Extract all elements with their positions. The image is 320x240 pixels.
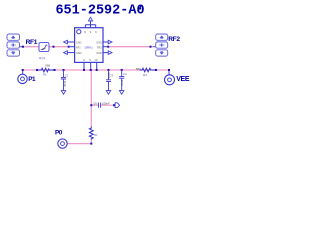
junction port RF1 — [22, 46, 24, 48]
resistor R2 — [89, 127, 93, 140]
power symbol VEE — [165, 75, 175, 85]
junction P0 corner — [90, 143, 92, 145]
svg-text:P0: P0 — [55, 130, 63, 137]
junction VEE corner — [168, 69, 170, 71]
svg-text:R3: R3 — [143, 73, 147, 77]
junction C6 branch — [90, 104, 92, 106]
resistor R1 — [38, 68, 53, 72]
U1 right pin stub RF2 — [103, 46, 108, 48]
power arrow up — [88, 17, 92, 21]
U1 left pin stub GND2 (nc) — [67, 52, 74, 54]
svg-text:GND: GND — [96, 41, 102, 44]
svg-text:P1: P1 — [28, 76, 36, 83]
nc arrow left bottom — [64, 51, 68, 55]
nc arrow right bottom — [108, 51, 112, 55]
svg-text:10: 10 — [94, 58, 97, 62]
wire C6 branch — [91, 104, 114, 106]
junction R1 left — [36, 69, 38, 71]
IC U1 pin1 circle — [77, 30, 81, 34]
IC U1 body — [75, 28, 103, 63]
svg-text:C3: C3 — [110, 73, 114, 77]
svg-text:10nF: 10nF — [120, 80, 124, 87]
junction port RF2 — [150, 46, 152, 48]
capacitor C6 — [98, 103, 100, 108]
svg-text:RF2: RF2 — [168, 36, 180, 43]
junction C2 — [63, 69, 65, 71]
junction U1 pin RF2 — [107, 46, 109, 48]
junction R1 right — [54, 69, 56, 71]
hierarchical port RF1 box bottom — [7, 50, 20, 56]
U1 right pin stub GND2 (nc) — [103, 52, 108, 54]
svg-text:DRA1: DRA1 — [85, 46, 94, 50]
junction U1 pin RF1 — [68, 46, 70, 48]
svg-text:GND: GND — [76, 41, 82, 44]
capacitor C4 — [119, 70, 124, 90]
junction U1 gnd pin 1 — [83, 69, 85, 71]
svg-text:RF1: RF1 — [26, 39, 38, 46]
U1 left pin stub GND (nc) — [67, 41, 74, 43]
svg-text:C4: C4 — [123, 72, 127, 76]
capacitor C3 — [106, 70, 111, 90]
wire VEE drop — [168, 70, 170, 75]
power symbol P0 — [58, 139, 67, 148]
U1 bottom pin stub 1 — [83, 62, 85, 70]
svg-text:RF1: RF1 — [76, 47, 81, 50]
svg-text:560: 560 — [45, 64, 50, 68]
svg-text:50: 50 — [94, 133, 98, 137]
junction EQ1 right — [53, 46, 55, 48]
hierarchical port RF1 box middle — [7, 42, 20, 48]
junction P1 corner — [22, 69, 24, 71]
wire P0 vertical lower — [67, 140, 91, 144]
svg-text:10nF: 10nF — [63, 81, 67, 88]
VCC power bar above U1 — [85, 21, 95, 28]
wire P0 vertical upper — [90, 70, 92, 127]
svg-text:RF2: RF2 — [97, 47, 102, 50]
U1 bottom pin stub 2 — [90, 62, 92, 70]
U1 bottom pin stub 3 — [96, 62, 98, 70]
junction offpage — [113, 104, 115, 106]
svg-text:EQ1: EQ1 — [39, 56, 45, 60]
hierarchical port RF2 box middle — [156, 42, 168, 48]
svg-text:GND: GND — [96, 52, 102, 55]
junction C3 — [108, 69, 110, 71]
ground arrow C4 — [120, 91, 124, 95]
power symbol P1 — [18, 74, 27, 83]
junction U1 gnd pin 2 — [90, 69, 92, 71]
junction C4 — [121, 69, 123, 71]
capacitor C2 — [61, 70, 66, 90]
svg-text:651-2592-A0: 651-2592-A0 — [55, 3, 144, 18]
svg-text:100nF: 100nF — [102, 101, 110, 105]
svg-text:GND: GND — [76, 52, 82, 55]
nc arrow left top — [64, 40, 68, 44]
svg-text:VEE: VEE — [176, 76, 190, 83]
hierarchical port RF1 box top — [7, 34, 20, 40]
junction R3 right — [155, 69, 157, 71]
ground arrow C2 — [61, 91, 65, 95]
U1 left pin stub RF1 — [69, 46, 75, 48]
wire VEE rail — [23, 69, 169, 71]
svg-text:C6: C6 — [93, 102, 97, 106]
U1 right pin stub GND (nc) — [103, 41, 108, 43]
wire net RF1 port-to-EQ1 — [21, 46, 40, 48]
svg-text:R1: R1 — [43, 73, 47, 77]
offpage connector arrow — [115, 103, 120, 108]
equalizer EQ1 — [39, 43, 49, 52]
resistor R3 — [140, 68, 156, 72]
wire net RF1 EQ1-to-U1 — [49, 46, 69, 48]
ground arrow C3 — [106, 91, 110, 95]
hierarchical port RF2 box bottom — [156, 50, 168, 56]
hierarchical port RF2 box top — [156, 34, 168, 40]
wire net RF2 U1-to-port — [108, 46, 153, 48]
junction U1 gnd pin 3 — [96, 69, 98, 71]
wire P1 riser — [22, 70, 24, 74]
svg-text:C2: C2 — [65, 73, 69, 77]
nc arrow right top — [108, 40, 112, 44]
